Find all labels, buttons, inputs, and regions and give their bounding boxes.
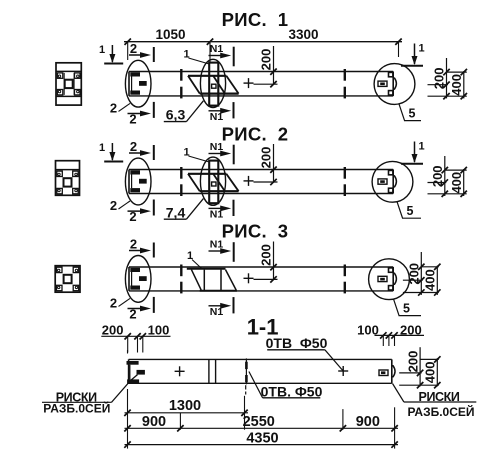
svg-text:1: 1: [418, 43, 424, 55]
svg-text:1300: 1300: [169, 398, 201, 414]
anchor bar center mark: [212, 182, 216, 186]
joint break mark at x=344.8: [344, 167, 346, 179]
vertical dim 200 at middle: [273, 242, 275, 281]
svg-text:7,4: 7,4: [166, 204, 186, 220]
left end detail ellipse (node 2): [125, 60, 151, 107]
dim tick right end: [395, 39, 401, 45]
svg-text:1: 1: [418, 141, 424, 153]
section S2 top-left rebar hook: [57, 171, 63, 176]
plate left diagonal: [188, 174, 200, 191]
section S1 top-left rebar hook: [57, 73, 63, 78]
right dims 200 / 400: [444, 156, 446, 196]
section S2 top-right rebar hook: [73, 171, 79, 176]
svg-text:5: 5: [409, 106, 416, 120]
svg-text:100: 100: [357, 323, 379, 338]
left end bottom anchor plate: [130, 188, 140, 192]
svg-text:2: 2: [110, 295, 117, 310]
right end centering bump: [393, 273, 396, 284]
svg-text:РИС. 3: РИС. 3: [222, 221, 289, 242]
dimension line 1050 / 3300: [124, 41, 402, 43]
right end bottom anchor loop: [389, 188, 393, 192]
right end centering bump: [393, 78, 396, 89]
svg-text:400: 400: [449, 74, 464, 96]
svg-text:2: 2: [110, 198, 117, 213]
right end fixing plate: [378, 179, 387, 184]
left end center fixing block: [139, 81, 147, 86]
section S1 bottom-left rebar hook: [57, 90, 63, 95]
svg-text:100: 100: [148, 323, 170, 338]
vertical dim 200 at middle: [273, 46, 275, 85]
cross-section view S3 (left column): [55, 266, 80, 293]
joint break mark at x=344.8: [344, 69, 346, 81]
svg-text:2: 2: [110, 100, 117, 115]
svg-text:400: 400: [449, 172, 464, 194]
svg-text:5: 5: [403, 301, 410, 315]
anchor bar (vertical): [209, 161, 218, 204]
beam 3 top edge: [129, 266, 393, 268]
1-1 bottom dim 1300: [125, 412, 249, 414]
vertical dim 200 at middle: [273, 144, 275, 183]
leader to label 5: [393, 299, 399, 316]
beam 3 bottom edge: [129, 290, 393, 292]
hole axis cross: [244, 277, 254, 279]
1-1 left end bottom anchor plate: [127, 379, 139, 384]
right end detail circle (node 5): [369, 259, 410, 300]
extension line left: [127, 42, 129, 60]
svg-text:900: 900: [142, 414, 166, 430]
svg-text:2: 2: [130, 237, 137, 252]
leader to label 5: [397, 201, 403, 218]
section S1 bottom-right rebar hook: [75, 90, 81, 95]
1-1 right extension line: [394, 407, 396, 448]
right end top anchor loop: [389, 72, 393, 76]
embedded plate top edge: [188, 173, 226, 175]
cross-section view S2 (left column): [56, 161, 80, 196]
left end recess line: [131, 272, 133, 286]
middle detail trapezoid plate: [187, 268, 226, 270]
section S1 center duct square: [65, 80, 73, 88]
left end detail ellipse (node 2): [125, 158, 151, 205]
right end fixing plate: [378, 81, 387, 86]
1-1 left riska diagonal: [131, 375, 138, 381]
plate right diagonal: [226, 76, 238, 94]
right end face: [392, 170, 394, 194]
svg-text:РИС. 1: РИС. 1: [222, 9, 289, 30]
section S3 center duct square: [64, 275, 72, 283]
anchor bar center mark: [212, 84, 216, 88]
right end face: [392, 267, 394, 291]
right end face: [392, 72, 394, 96]
section S1 top flange line: [56, 70, 81, 72]
svg-text:200: 200: [407, 263, 422, 285]
cross-section view S1 (left column): [56, 63, 81, 105]
1-1 right dims 200 400: [419, 347, 421, 386]
1-1 right end fixing plate: [379, 370, 388, 376]
svg-text:900: 900: [356, 414, 380, 430]
middle detail ellipse (node 1): [200, 157, 225, 205]
svg-text:200: 200: [400, 323, 422, 338]
plate left diagonal: [188, 76, 200, 94]
svg-text:РИС. 2: РИС. 2: [222, 124, 289, 145]
svg-text:2550: 2550: [243, 414, 275, 430]
section S3 bottom-left rebar hook: [57, 285, 63, 290]
left end top anchor plate: [130, 170, 140, 174]
left end recess line: [131, 77, 133, 91]
svg-text:5: 5: [407, 204, 414, 218]
section S2 center duct square: [64, 178, 72, 186]
1-1 hole cross right: [338, 370, 348, 372]
section S3 top-left rebar hook: [57, 267, 63, 272]
dim tick left end: [125, 39, 131, 45]
left end detail ellipse (node 2): [125, 256, 151, 303]
svg-text:200: 200: [430, 165, 445, 187]
left end center fixing block: [139, 276, 147, 281]
1-1 top-left dims 200 100: [101, 335, 170, 337]
svg-text:1: 1: [99, 142, 105, 154]
section S3 top-right rebar hook: [73, 267, 79, 272]
leader to label 5: [399, 104, 405, 121]
beam 1 bottom edge: [129, 95, 393, 97]
left end recess line: [131, 175, 133, 189]
section S1 stirrup lines: [63, 73, 65, 95]
right end centering bump: [393, 176, 396, 187]
anchor bar (vertical): [209, 63, 218, 106]
embedded plate bottom edge: [200, 92, 239, 94]
1-1 top-right dims 100 200: [375, 334, 425, 336]
right end fixing plate: [378, 276, 387, 281]
section S1 top-right rebar hook: [75, 73, 81, 78]
1-1 hole cross left: [175, 370, 185, 372]
extension line right: [398, 42, 400, 57]
plate middle diagonal: [213, 76, 225, 94]
section 1-1 beam outline: [129, 358, 392, 360]
svg-text:2: 2: [130, 41, 137, 56]
hole axis cross: [244, 82, 254, 84]
trapezoid anchor verticals: [203, 270, 205, 291]
plate right diagonal: [226, 174, 238, 191]
left end face: [128, 170, 130, 194]
plate middle diagonal: [213, 174, 225, 191]
section S2 bottom-right rebar hook: [73, 188, 79, 193]
svg-text:4350: 4350: [246, 431, 278, 447]
1-1 bottom dim 900 2550 900: [125, 427, 399, 429]
left end center fixing block: [139, 179, 147, 184]
left end top anchor plate: [130, 268, 140, 272]
right end detail circle (node 5): [372, 161, 413, 202]
svg-text:1: 1: [183, 147, 189, 159]
left end bottom anchor plate: [130, 286, 140, 290]
left end bottom anchor plate: [130, 91, 140, 95]
1-1 joint lines: [208, 359, 210, 383]
right end top anchor loop: [389, 268, 393, 272]
svg-text:200: 200: [405, 351, 420, 373]
beam 2 bottom edge: [129, 193, 393, 195]
svg-text:1: 1: [183, 49, 189, 61]
1-1 left extension line: [127, 389, 129, 449]
joint break mark at x=181.3: [180, 69, 182, 81]
joint break mark at x=344.8: [344, 265, 346, 277]
middle detail ellipse (node 1): [200, 59, 225, 107]
right end detail circle (node 5): [374, 64, 415, 105]
1-1 left recess line: [129, 365, 131, 380]
joint break mark at x=181.3: [180, 265, 182, 277]
left end face: [128, 267, 130, 291]
section S2 bottom-left rebar hook: [57, 188, 63, 193]
1-1 axis joint with break marks: [245, 358, 247, 384]
dim tick middle: [207, 39, 213, 45]
1-1 left end top anchor plate: [127, 361, 139, 365]
1-1 right end centering bump: [392, 366, 395, 377]
joint break mark at x=181.3: [180, 167, 182, 179]
svg-text:400: 400: [423, 269, 438, 291]
right dims 200 / 400: [446, 58, 448, 98]
section S1 bottom flange line: [56, 95, 81, 97]
svg-text:РАЗБ.0СЕЙ: РАЗБ.0СЕЙ: [407, 404, 474, 419]
svg-text:3300: 3300: [288, 27, 318, 42]
embedded plate bottom edge: [200, 190, 239, 192]
section S2 top flange line: [56, 169, 80, 171]
svg-text:0ТВ Ф50: 0ТВ Ф50: [266, 335, 328, 351]
beam 2 top edge: [129, 169, 393, 171]
svg-text:1: 1: [99, 44, 105, 56]
svg-text:200: 200: [432, 68, 447, 90]
embedded plate top edge: [188, 75, 226, 77]
left end face: [128, 72, 130, 96]
svg-text:200: 200: [258, 147, 273, 169]
1-1 left end center block: [137, 370, 145, 375]
right end top anchor loop: [389, 170, 393, 174]
svg-text:400: 400: [423, 362, 438, 384]
right end bottom anchor loop: [389, 286, 393, 290]
hole axis cross: [244, 180, 254, 182]
svg-text:1050: 1050: [155, 27, 185, 42]
right end bottom anchor loop: [389, 91, 393, 95]
beam 1 top edge: [129, 71, 393, 73]
svg-text:200: 200: [258, 244, 273, 266]
svg-text:200: 200: [102, 323, 124, 338]
1-1 bottom dim 4350: [125, 444, 399, 446]
svg-text:6,3: 6,3: [166, 107, 186, 123]
right dims 200 / 400: [420, 252, 422, 295]
extension line middle: [209, 42, 211, 62]
left end top anchor plate: [130, 72, 140, 76]
section S3 bottom-right rebar hook: [73, 285, 79, 290]
svg-text:2: 2: [130, 139, 137, 154]
svg-text:200: 200: [258, 49, 273, 71]
